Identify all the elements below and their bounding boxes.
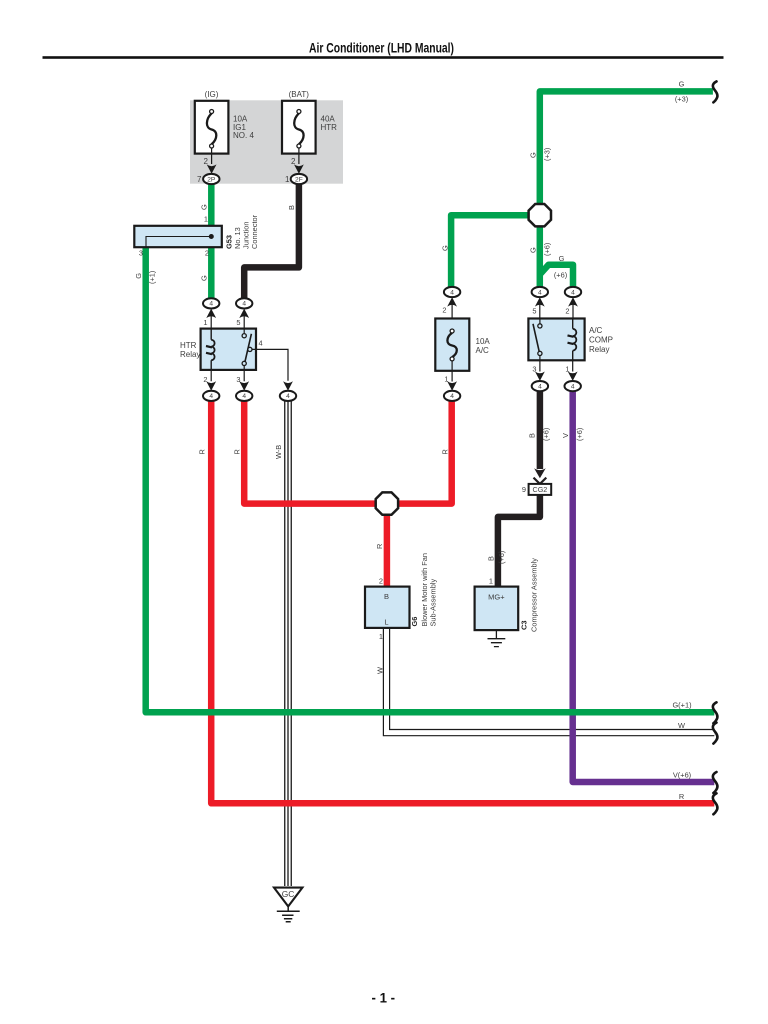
svg-text:G: G: [441, 245, 450, 251]
wire G (top right G(+3) to junction J1): [540, 91, 713, 205]
svg-text:L: L: [384, 618, 388, 627]
continuation brace G(+3): [713, 81, 718, 102]
svg-text:CG2: CG2: [533, 485, 548, 494]
svg-text:2: 2: [442, 306, 446, 315]
fuse 10A IG1 NO.4: [195, 90, 255, 174]
svg-text:G: G: [529, 152, 538, 158]
svg-text:(+6): (+6): [575, 428, 584, 441]
svg-text:G(+1): G(+1): [672, 700, 691, 709]
wire B (HTR fuse 2F to HTR relay pin 5): [244, 183, 299, 300]
svg-text:W: W: [376, 667, 385, 674]
svg-text:G: G: [559, 254, 565, 263]
svg-text:1: 1: [489, 577, 493, 586]
svg-text:4: 4: [538, 289, 542, 296]
fuse 40A HTR: [282, 90, 337, 174]
svg-text:4: 4: [538, 383, 542, 390]
svg-text:B: B: [487, 556, 496, 561]
A/C COMP relay: [528, 287, 613, 391]
svg-text:1: 1: [203, 318, 207, 327]
svg-text:R: R: [375, 544, 384, 549]
svg-text:C3: C3: [520, 621, 529, 630]
svg-text:(+6): (+6): [497, 551, 506, 564]
svg-text:2: 2: [203, 375, 207, 384]
wire G branch (to A/C COMP relay pin 2): [540, 265, 573, 289]
svg-text:Relay: Relay: [589, 345, 609, 354]
wire V (A/C COMP relay pin 1 to right edge): [573, 391, 715, 782]
wire R (HTR relay pin 2 to right edge bottom): [211, 401, 714, 803]
svg-text:B: B: [384, 592, 389, 601]
relay block (gray): [190, 100, 343, 183]
ground (compressor): [488, 630, 506, 647]
svg-text:COMP: COMP: [589, 336, 613, 345]
svg-text:2: 2: [204, 157, 209, 166]
svg-text:R: R: [198, 449, 207, 454]
svg-text:G: G: [134, 273, 143, 279]
svg-text:4: 4: [242, 393, 246, 400]
svg-text:(+3): (+3): [675, 95, 688, 104]
arrow into CG2 (double chevron): [534, 468, 546, 478]
header rule: [43, 56, 724, 59]
svg-text:2: 2: [379, 577, 383, 586]
wire G (junction J1 to 10A A/C fuse): [451, 215, 540, 288]
wire B (A/C COMP relay pin 3 to CG2): [537, 391, 544, 469]
svg-text:G: G: [529, 247, 538, 253]
svg-text:B: B: [287, 205, 296, 210]
svg-text:Compressor Assembly: Compressor Assembly: [530, 558, 539, 632]
svg-text:10A: 10A: [476, 337, 491, 346]
svg-text:R: R: [679, 792, 684, 801]
ground GC (W-B wire): [274, 888, 302, 922]
svg-text:4: 4: [571, 289, 575, 296]
svg-text:Sub-Assembly: Sub-Assembly: [429, 579, 438, 627]
continuation brace R: [713, 793, 718, 814]
wire W (blower motor to right edge): [387, 628, 715, 733]
continuation brace V(+6): [713, 772, 718, 793]
svg-text:4: 4: [209, 301, 213, 308]
wire B (CG2 to compressor MG+): [498, 494, 540, 587]
svg-text:G: G: [200, 275, 209, 281]
svg-text:7: 7: [197, 175, 202, 184]
wire G (G53 pin 2 to HTR relay pin 1): [208, 247, 215, 300]
svg-text:V(+6): V(+6): [673, 770, 691, 779]
svg-text:(+6): (+6): [542, 428, 551, 441]
svg-text:Air Conditioner (LHD Manual): Air Conditioner (LHD Manual): [309, 41, 454, 56]
svg-text:2P: 2P: [207, 176, 216, 183]
svg-text:2: 2: [205, 249, 209, 258]
svg-text:5: 5: [236, 318, 240, 327]
svg-text:4: 4: [242, 301, 246, 308]
svg-text:G: G: [679, 80, 685, 89]
svg-text:HTR: HTR: [321, 123, 338, 132]
connector 2P: [203, 174, 219, 184]
svg-text:G6: G6: [410, 617, 419, 627]
svg-text:V: V: [561, 433, 570, 438]
junction connector G53: [134, 226, 222, 258]
svg-text:- 1 -: - 1 -: [372, 990, 396, 1006]
connector CG2: [522, 484, 551, 495]
svg-text:Relay: Relay: [180, 350, 200, 359]
svg-text:4: 4: [286, 393, 290, 400]
svg-text:HTR: HTR: [180, 341, 197, 350]
svg-text:2F: 2F: [295, 176, 303, 183]
svg-text:1: 1: [285, 175, 290, 184]
svg-text:NO. 4: NO. 4: [233, 131, 254, 140]
svg-text:9: 9: [522, 485, 526, 494]
svg-text:A/C: A/C: [589, 326, 603, 335]
svg-text:(+6): (+6): [543, 243, 552, 256]
wire G (junction J1 down to A/C COMP relay pin 5): [537, 215, 544, 288]
svg-text:(+1): (+1): [148, 271, 157, 284]
continuation brace W: [713, 723, 718, 744]
wire R (junction to blower motor pin 2): [384, 504, 391, 587]
svg-text:R: R: [441, 449, 450, 454]
svg-text:(IG): (IG): [205, 90, 219, 99]
svg-text:3: 3: [139, 249, 143, 258]
svg-text:3: 3: [236, 375, 240, 384]
svg-text:4: 4: [571, 383, 575, 390]
wire G (IG fuse 2P to junction connector G53): [208, 183, 215, 227]
svg-text:(+3): (+3): [543, 148, 552, 161]
svg-text:4: 4: [258, 338, 262, 347]
svg-text:GC: GC: [282, 889, 295, 899]
svg-text:5: 5: [532, 307, 536, 316]
svg-text:B: B: [528, 433, 537, 438]
svg-text:MG+: MG+: [488, 592, 505, 601]
svg-text:G: G: [200, 204, 209, 210]
svg-text:W: W: [678, 721, 685, 730]
svg-text:2: 2: [565, 307, 569, 316]
junction octagon (green): [529, 204, 551, 226]
HTR relay: [180, 298, 296, 401]
svg-text:(+6): (+6): [554, 271, 567, 280]
wire G (G53 pin 3 to right edge, G(+1)): [146, 247, 715, 713]
svg-text:4: 4: [450, 289, 454, 296]
wire W-B (HTR relay pin 4 to ground GC): [284, 401, 292, 886]
svg-text:R: R: [233, 449, 242, 454]
compressor assembly C3 (MG+): [475, 587, 519, 631]
wire R (HTR relay pin 3 / junction / A-C fuse): [244, 401, 452, 504]
svg-text:4: 4: [209, 393, 213, 400]
connector 2F: [291, 174, 307, 184]
continuation brace G(+1): [713, 702, 718, 723]
svg-text:4: 4: [450, 393, 454, 400]
svg-text:A/C: A/C: [476, 346, 490, 355]
svg-text:2: 2: [291, 157, 296, 166]
junction octagon (red): [376, 492, 398, 514]
blower motor G6: [365, 587, 410, 628]
svg-text:1: 1: [565, 365, 569, 374]
svg-text:W-B: W-B: [274, 445, 283, 459]
svg-text:1: 1: [204, 215, 208, 224]
svg-text:(BAT): (BAT): [289, 90, 310, 99]
svg-text:1: 1: [379, 632, 383, 641]
svg-text:Connector: Connector: [250, 214, 259, 249]
fuse 10A A/C: [435, 287, 490, 401]
